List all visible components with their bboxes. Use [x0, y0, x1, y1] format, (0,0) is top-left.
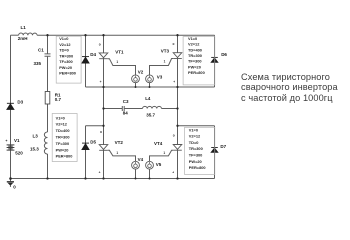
svg-text:0.7: 0.7 — [55, 97, 62, 102]
svg-text:PW=20: PW=20 — [59, 65, 72, 70]
svg-text:V1=0: V1=0 — [188, 36, 197, 41]
source V5 — [146, 161, 154, 169]
wire V3 bottom stub — [149, 83, 151, 87]
wire load right segment — [162, 108, 178, 110]
svg-text:+: + — [172, 171, 174, 175]
wire mid bus upper cell — [86, 86, 215, 88]
svg-text:PW=20: PW=20 — [188, 64, 201, 69]
svg-text:TD=400: TD=400 — [56, 128, 70, 133]
wire gate VT1 to V2 — [108, 59, 136, 75]
wire D5 branch — [85, 126, 87, 179]
svg-text:+: + — [100, 80, 102, 84]
wire right edge upper cell — [214, 35, 216, 87]
wire load left segment — [104, 108, 123, 110]
svg-text:TR=300: TR=300 — [56, 135, 70, 140]
svg-text:D6: D6 — [221, 52, 227, 57]
diode D7 — [211, 148, 218, 153]
svg-text:TF=300: TF=300 — [189, 152, 203, 157]
wire gate VT2 to V4 — [108, 150, 136, 161]
svg-text:V2=12: V2=12 — [56, 122, 68, 127]
diode D5 — [82, 143, 89, 149]
svg-text:C3: C3 — [123, 99, 129, 104]
svg-text:335: 335 — [34, 61, 42, 66]
wire D7 branch right edge lower cell — [214, 126, 216, 179]
svg-text:PW=20: PW=20 — [56, 147, 69, 152]
svg-text:V2=12: V2=12 — [59, 42, 71, 47]
wire VT3 branch — [177, 35, 179, 126]
wire load middle segment — [125, 108, 143, 110]
wire left edge — [10, 35, 12, 178]
svg-text:o: o — [99, 43, 101, 47]
svg-text:+: + — [5, 139, 7, 143]
svg-text:V1: V1 — [14, 138, 20, 143]
svg-text:TF=300: TF=300 — [188, 59, 202, 64]
svg-text:VT3: VT3 — [161, 48, 170, 53]
svg-text:D3: D3 — [17, 99, 23, 104]
svg-text:V2=12: V2=12 — [189, 134, 201, 139]
svg-text:L4: L4 — [145, 96, 151, 101]
svg-text:1: 1 — [116, 60, 118, 64]
svg-text:84: 84 — [123, 111, 129, 116]
caption — [241, 72, 338, 104]
svg-text:PER=800: PER=800 — [59, 71, 76, 76]
svg-text:o: o — [173, 134, 175, 138]
svg-text:V1=0: V1=0 — [189, 127, 198, 132]
wire top bus — [37, 34, 214, 36]
wire VT1 branch — [103, 35, 105, 126]
svg-text:TD=0: TD=0 — [189, 140, 199, 145]
svg-text:1: 1 — [164, 60, 166, 64]
svg-text:L1: L1 — [21, 25, 27, 30]
text param box V3 — [183, 37, 215, 85]
svg-text:V2=12: V2=12 — [188, 42, 200, 47]
resistor R1 — [45, 92, 50, 105]
diode D3 — [7, 103, 14, 109]
svg-text:TD=400: TD=400 — [188, 47, 202, 52]
svg-text:+: + — [99, 171, 101, 175]
svg-text:TF=300: TF=300 — [59, 59, 73, 64]
wire gate VT3 to V3 — [150, 59, 174, 76]
svg-text:+: + — [173, 80, 175, 84]
svg-text:TR=300: TR=300 — [59, 53, 73, 58]
svg-text:520: 520 — [15, 150, 23, 155]
wire D4 branch — [85, 35, 87, 87]
svg-text:C1: C1 — [38, 48, 44, 53]
wire gate VT4 to V5 — [150, 150, 174, 161]
text param box V5 — [185, 127, 215, 174]
thyristor VT4 — [173, 145, 182, 151]
svg-text:V3: V3 — [157, 74, 163, 79]
thyristor VT3 — [173, 53, 182, 59]
source V4 — [132, 161, 140, 169]
battery V1 — [7, 145, 15, 150]
text param box V4 — [52, 114, 77, 162]
capacitor C3 — [122, 106, 124, 111]
wire bottom bus — [11, 178, 215, 180]
svg-text:1: 1 — [163, 151, 165, 155]
thyristor VT2 — [99, 145, 108, 151]
svg-text:PER=800: PER=800 — [189, 165, 206, 170]
svg-text:VT4: VT4 — [154, 141, 163, 146]
svg-text:0: 0 — [13, 184, 16, 189]
svg-text:2mH: 2mH — [18, 36, 28, 41]
inductor L3 — [44, 132, 47, 154]
wire L3 to bottom bus — [47, 154, 49, 179]
wire lower cell top bus right — [178, 125, 215, 127]
inductor L1 — [19, 33, 38, 35]
text param box V2 — [56, 36, 81, 83]
wire VT2 branch — [103, 126, 105, 179]
wire V4 bottom stub — [135, 169, 137, 178]
capacitor C1 — [45, 54, 51, 56]
svg-text:o: o — [173, 42, 175, 46]
wire top bus left of L1 — [11, 34, 19, 36]
wire C1 to R1 to L3 — [47, 57, 49, 132]
svg-text:D7: D7 — [220, 144, 226, 149]
svg-text:V1=0: V1=0 — [59, 36, 68, 41]
wire lower cell top bus left — [86, 125, 104, 127]
diode D4 — [82, 57, 89, 63]
source V2 — [132, 75, 140, 83]
svg-text:PW=20: PW=20 — [189, 159, 202, 164]
svg-text:V1=0: V1=0 — [56, 115, 65, 120]
svg-text:o: o — [100, 130, 102, 134]
inductor L4 — [143, 106, 162, 108]
wire VT4 branch — [177, 126, 179, 179]
wire V2 bottom stub — [135, 83, 137, 87]
svg-text:TR=300: TR=300 — [188, 53, 202, 58]
thyristor VT1 — [99, 53, 108, 59]
svg-text:D4: D4 — [90, 52, 96, 57]
svg-text:VT2: VT2 — [115, 140, 124, 145]
svg-text:PER=800: PER=800 — [56, 154, 73, 159]
svg-text:VT1: VT1 — [115, 50, 124, 55]
svg-text:PER=800: PER=800 — [188, 70, 205, 75]
wire V5 bottom stub — [149, 169, 151, 178]
svg-text:D5: D5 — [90, 140, 96, 145]
svg-text:1: 1 — [116, 151, 118, 155]
source V3 — [146, 75, 154, 83]
svg-text:TD=0: TD=0 — [59, 48, 69, 53]
svg-text:L3: L3 — [33, 134, 39, 139]
ground — [7, 179, 14, 187]
svg-text:15.3: 15.3 — [30, 147, 39, 152]
diode D6 — [211, 57, 218, 62]
svg-text:TF=300: TF=300 — [56, 141, 70, 146]
tiny pin glyphs — [99, 42, 176, 174]
wire C1 branch upper — [47, 35, 49, 53]
svg-text:TR=300: TR=300 — [189, 146, 203, 151]
svg-text:V2: V2 — [138, 70, 144, 75]
svg-text:V5: V5 — [156, 162, 162, 167]
svg-text:35.7: 35.7 — [146, 112, 155, 117]
svg-text:V4: V4 — [138, 157, 144, 162]
